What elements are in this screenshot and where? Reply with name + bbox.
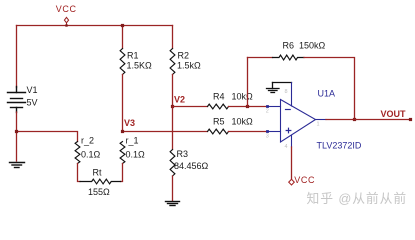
svg-text:1: 1 bbox=[317, 122, 320, 128]
svg-text:r_2: r_2 bbox=[81, 136, 94, 146]
ground under V1 bbox=[10, 163, 25, 168]
op-amp U1A body bbox=[281, 100, 316, 143]
wire battery node to r_2 top bbox=[17, 132, 78, 142]
op-amp minus pin bbox=[268, 106, 281, 108]
resistor R6 bbox=[273, 55, 305, 60]
svg-text:150kΩ: 150kΩ bbox=[299, 41, 326, 51]
svg-text:VCC: VCC bbox=[56, 4, 77, 14]
svg-text:R5: R5 bbox=[213, 117, 225, 127]
wire R4 to op-amp minus input bbox=[229, 106, 268, 108]
svg-text:8: 8 bbox=[285, 89, 288, 95]
node V3 junction bbox=[121, 130, 124, 133]
wire R2 branch upper bbox=[172, 26, 174, 49]
wire r_2 to Rt rail bbox=[78, 164, 81, 182]
wire R5 to op-amp plus input bbox=[229, 131, 268, 133]
node output junction bbox=[353, 118, 356, 121]
svg-text:84.456Ω: 84.456Ω bbox=[174, 161, 209, 171]
op-amp top power pin bbox=[291, 83, 293, 107]
svg-text:Rt: Rt bbox=[93, 168, 102, 178]
op-amp plus pin bbox=[268, 131, 281, 133]
svg-text:10kΩ: 10kΩ bbox=[232, 117, 254, 127]
svg-text:知乎 @从前从前: 知乎 @从前从前 bbox=[307, 191, 408, 206]
op-amp plus symbol bbox=[286, 128, 291, 133]
svg-text:3: 3 bbox=[266, 134, 269, 140]
node junction top rail R1 bbox=[121, 24, 124, 27]
svg-text:V2: V2 bbox=[174, 95, 185, 105]
wire R6 left horizontal bbox=[248, 57, 273, 59]
wire R6 feedback vertical bbox=[247, 58, 249, 107]
svg-text:2: 2 bbox=[266, 109, 269, 115]
ground for op-amp power bbox=[267, 83, 292, 93]
node V2 junction bbox=[171, 105, 174, 108]
wire r_1 to Rt rail bbox=[121, 164, 123, 182]
svg-text:10kΩ: 10kΩ bbox=[232, 92, 254, 102]
svg-text:VCC: VCC bbox=[294, 175, 315, 185]
svg-text:VOUT: VOUT bbox=[381, 109, 407, 119]
battery V1 bbox=[8, 87, 26, 113]
svg-text:R6: R6 bbox=[283, 41, 295, 51]
svg-text:1.5KΩ: 1.5KΩ bbox=[127, 61, 153, 71]
svg-text:R1: R1 bbox=[127, 51, 139, 61]
wire V3 rail to R5 bbox=[123, 131, 208, 133]
svg-text:155Ω: 155Ω bbox=[88, 187, 110, 197]
wire R1 to V3 bbox=[122, 75, 124, 132]
resistor R3 bbox=[170, 150, 175, 177]
wire R3 to ground bbox=[172, 176, 174, 201]
resistor R5 bbox=[208, 129, 229, 134]
wire R2 to V2 node bbox=[172, 75, 174, 107]
svg-text:R4: R4 bbox=[213, 92, 225, 102]
wire left vertical to battery bbox=[16, 26, 18, 88]
wire R1 branch upper bbox=[122, 26, 124, 49]
wire V2 to R4 bbox=[173, 106, 208, 108]
resistor R2 bbox=[170, 49, 175, 75]
node VCC stub junction bbox=[65, 24, 67, 26]
op-amp bottom power pin bbox=[291, 136, 293, 148]
wire R6 right to output bbox=[304, 58, 355, 120]
wire battery to ground bbox=[16, 112, 18, 161]
ground under R3 bbox=[166, 202, 180, 206]
svg-text:R2: R2 bbox=[178, 51, 190, 61]
svg-text:4: 4 bbox=[285, 144, 288, 150]
svg-text:V1: V1 bbox=[27, 85, 38, 95]
resistor r_1 bbox=[120, 142, 125, 164]
power symbol VCC bottom bbox=[289, 179, 295, 185]
power symbol VCC top bbox=[64, 17, 68, 25]
node junction battery tap bbox=[15, 130, 18, 133]
node feedback junction bbox=[246, 105, 249, 108]
resistor Rt bbox=[80, 179, 121, 184]
svg-text:TLV2372ID: TLV2372ID bbox=[317, 141, 362, 151]
node VOUT end bbox=[409, 118, 412, 121]
op-amp minus symbol bbox=[286, 109, 291, 111]
op-amp output pin bbox=[316, 119, 327, 121]
svg-text:r_1: r_1 bbox=[126, 136, 139, 146]
wire top rail from V1 to R2 branch bbox=[17, 25, 173, 27]
resistor R1 bbox=[120, 49, 125, 75]
wire op-amp to VCC bottom bbox=[291, 147, 293, 179]
resistor R4 bbox=[208, 104, 229, 109]
svg-text:U1A: U1A bbox=[318, 89, 336, 99]
svg-text:5V: 5V bbox=[27, 98, 38, 108]
svg-text:R3: R3 bbox=[177, 149, 189, 159]
resistor r_2 bbox=[75, 142, 80, 164]
svg-text:V3: V3 bbox=[124, 118, 135, 128]
svg-text:0.1Ω: 0.1Ω bbox=[126, 150, 146, 160]
wire R3 branch from V2 bbox=[172, 107, 174, 150]
svg-text:1.5kΩ: 1.5kΩ bbox=[177, 61, 201, 71]
wire output to VOUT bbox=[326, 119, 411, 121]
svg-text:0.1Ω: 0.1Ω bbox=[81, 150, 101, 160]
